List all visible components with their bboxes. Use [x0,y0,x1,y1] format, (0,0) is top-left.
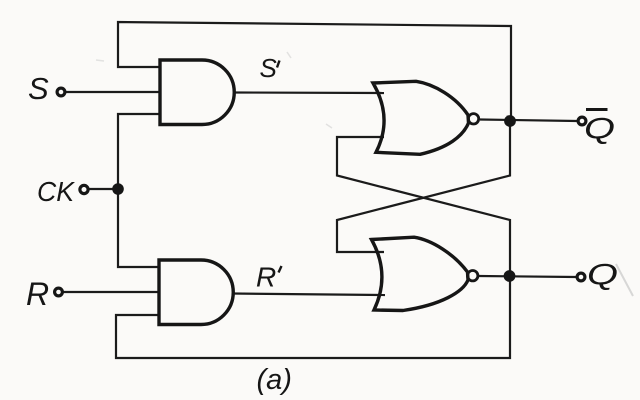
svg-text:R: R [26,276,49,312]
svg-text:R: R [256,262,276,293]
svg-text:CK: CK [37,176,75,207]
svg-text:(a): (a) [257,364,292,396]
svg-text:S: S [28,71,49,106]
svg-text:S: S [260,53,278,83]
svg-text:Q: Q [587,259,618,292]
svg-text:Q: Q [584,113,615,146]
